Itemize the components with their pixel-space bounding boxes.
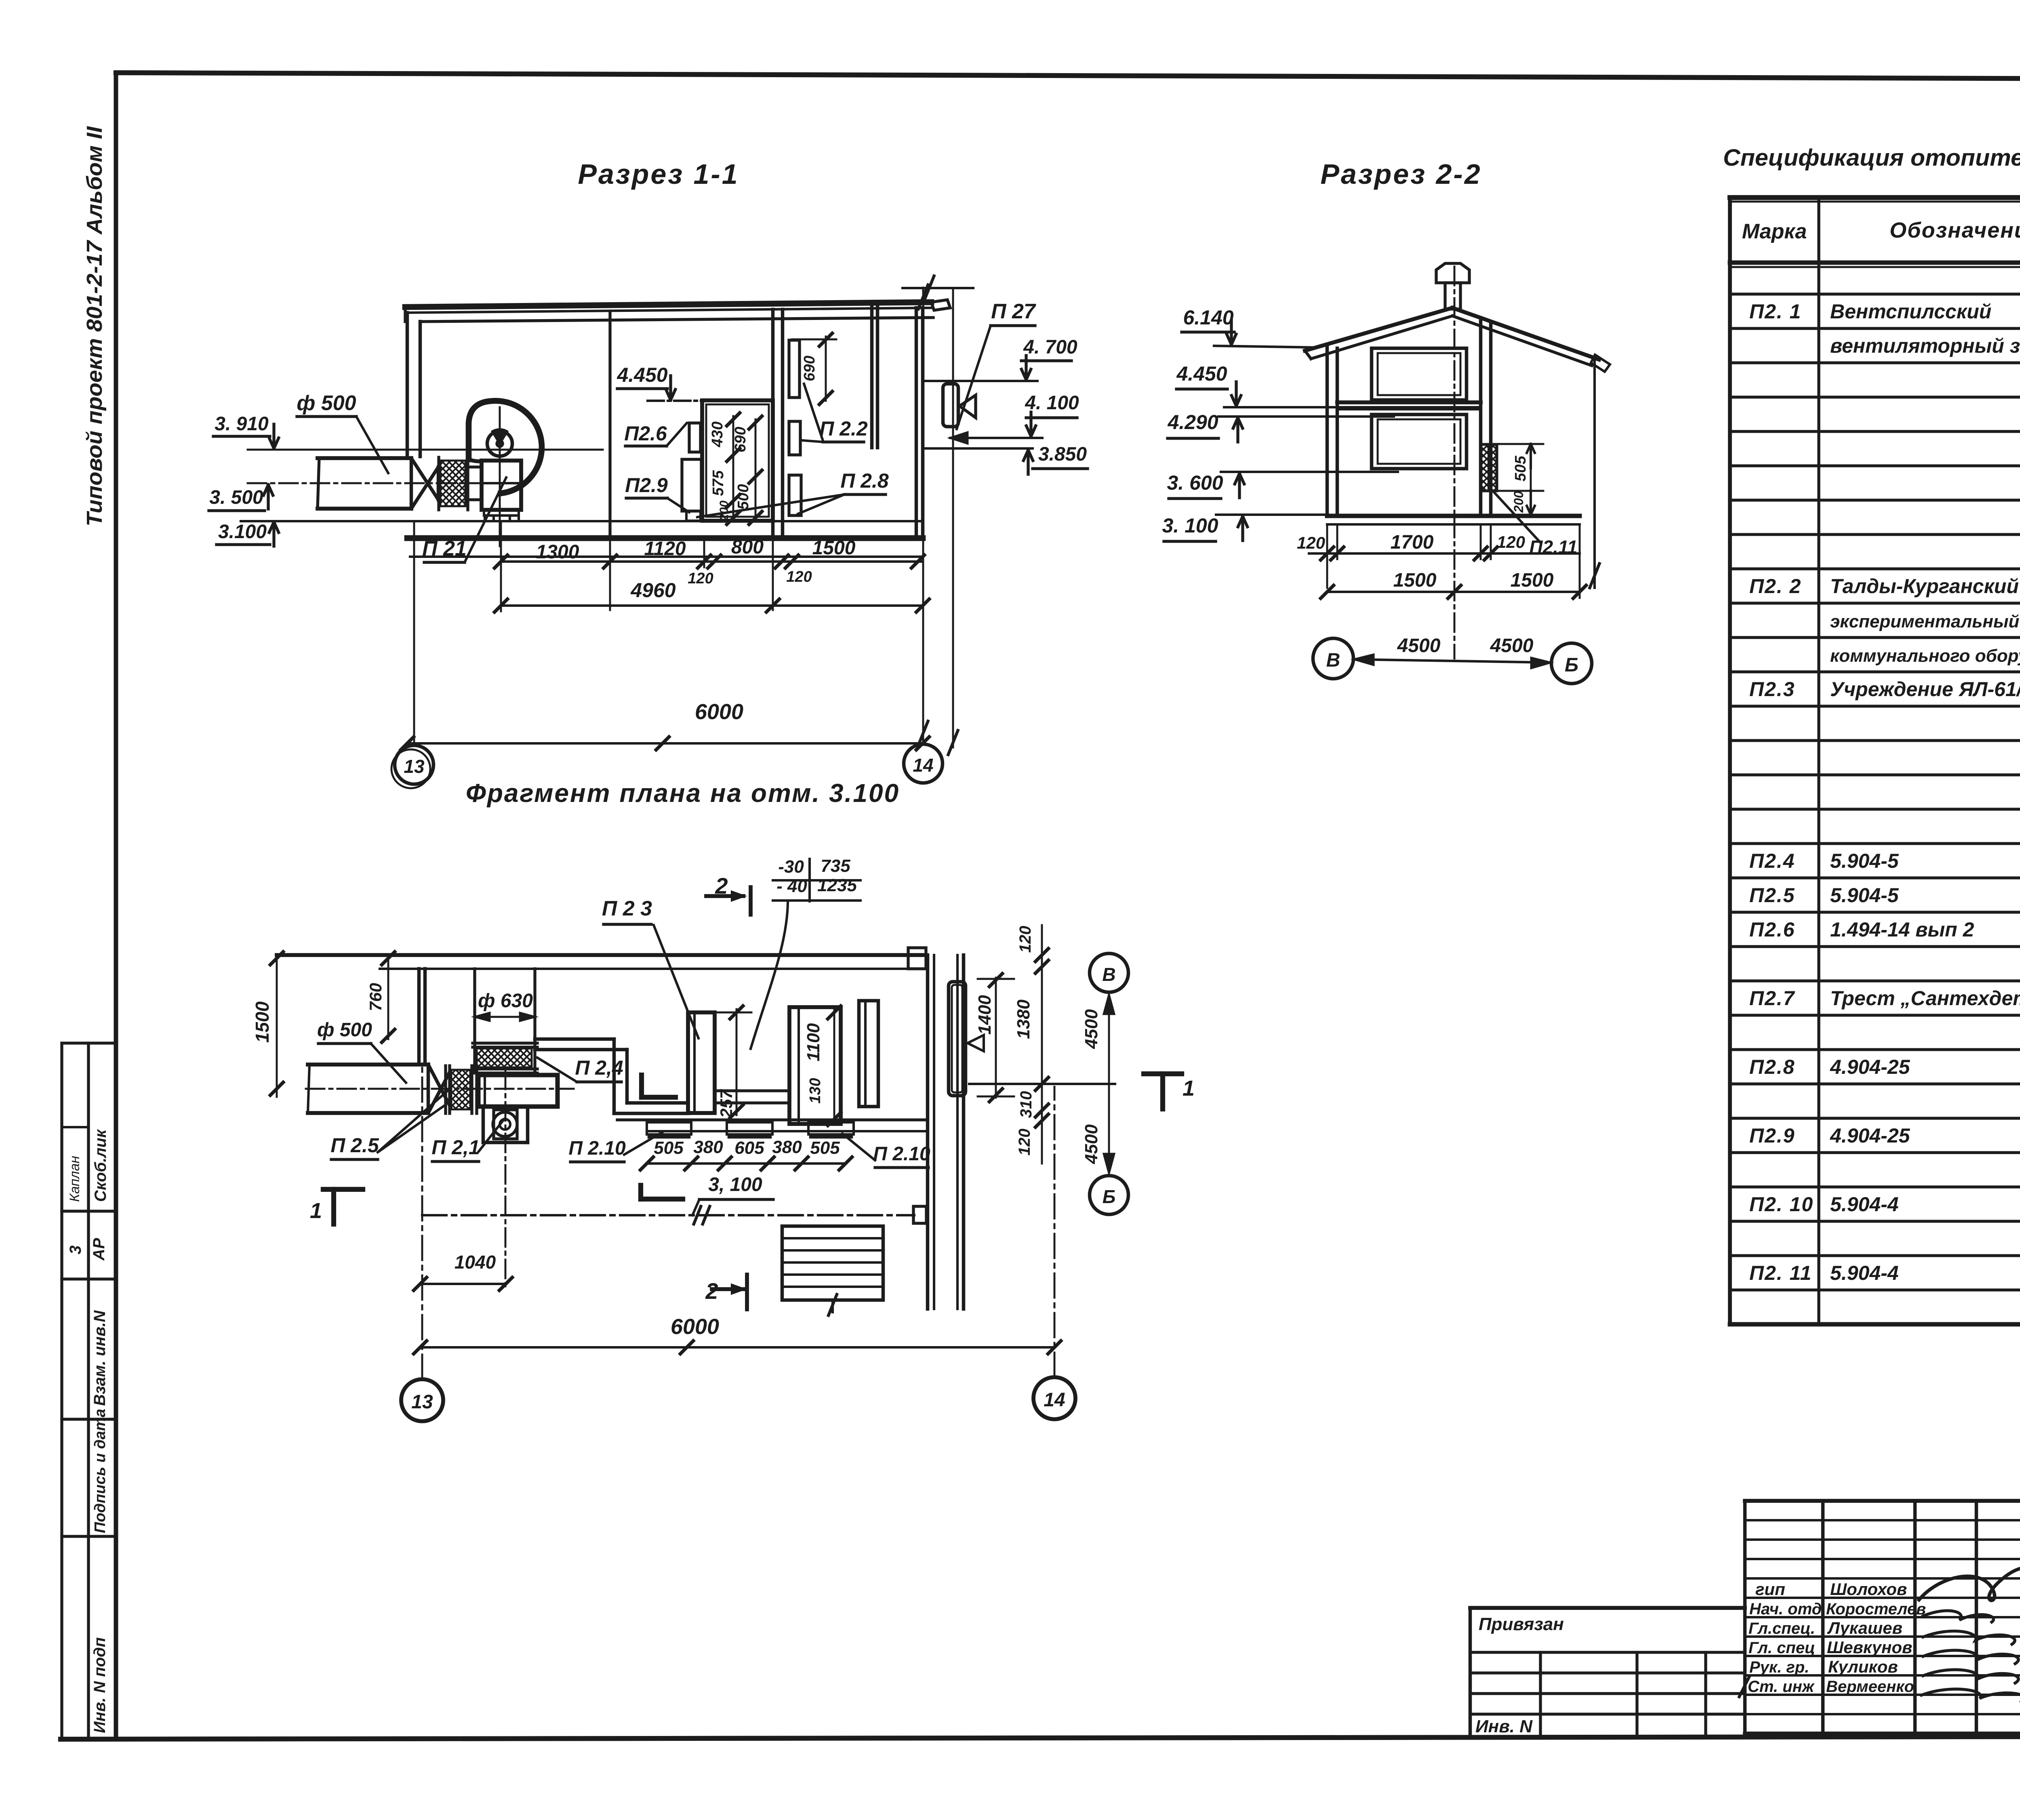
section 1-1 hanging wall stub: [870, 305, 874, 448]
svg-text:ф 500: ф 500: [297, 391, 356, 415]
page border frame: [116, 73, 2020, 80]
svg-text:П2.8: П2.8: [1749, 1056, 1795, 1078]
section 2-2 main floor: [1327, 514, 1580, 518]
svg-text:коммунального оборудования: коммунального оборудования: [1830, 646, 2020, 666]
vertical dim chain 430/575/200: [732, 416, 734, 521]
svg-text:Куликов: Куликов: [1828, 1657, 1898, 1676]
plan axis circle 14: [1033, 1377, 1075, 1419]
svg-text:4. 100: 4. 100: [1025, 392, 1079, 414]
svg-text:Нач. отд: Нач. отд: [1749, 1600, 1822, 1618]
svg-text:760: 760: [366, 983, 385, 1011]
svg-text:3. 500: 3. 500: [209, 487, 263, 508]
svg-text:П 2,4: П 2,4: [575, 1056, 623, 1079]
plan fan П2.1: [478, 1075, 558, 1107]
svg-text:П2.3: П2.3: [1749, 678, 1795, 701]
signature squiggles: [1919, 1568, 2020, 1601]
leader curve from table: [751, 903, 788, 1049]
svg-text:П2.7: П2.7: [1749, 987, 1795, 1010]
svg-text:500: 500: [735, 484, 752, 509]
svg-text:130: 130: [807, 1078, 824, 1103]
svg-text:505: 505: [654, 1138, 684, 1158]
svg-text:П2. 1: П2. 1: [1749, 300, 1801, 323]
svg-text:Скоб.лик: Скоб.лик: [92, 1129, 109, 1202]
svg-text:Трест „Сантехдеталь“: Трест „Сантехдеталь“: [1830, 987, 2020, 1010]
svg-text:П 2 3: П 2 3: [602, 897, 652, 920]
svg-text:П 2,1: П 2,1: [431, 1136, 480, 1159]
svg-text:200: 200: [1511, 491, 1526, 513]
plan vertical duct with П2.4 insert: [473, 969, 476, 1071]
svg-text:800: 800: [731, 537, 764, 558]
dim 1100/130: [833, 1010, 835, 1121]
svg-text:Шевкунов: Шевкунов: [1827, 1638, 1912, 1657]
device П2.7 on right wall: [943, 384, 958, 427]
svg-text:1100: 1100: [804, 1023, 823, 1061]
section 1-1 intake duct: [318, 456, 411, 460]
plan bottom wall of chamber: [617, 1118, 928, 1121]
svg-text:1500: 1500: [1511, 570, 1554, 591]
svg-text:П 21: П 21: [422, 537, 467, 560]
level reference vertical: [952, 288, 954, 747]
section mark 1 left: [323, 1187, 363, 1192]
svg-text:экспериментальный завод: экспериментальный завод: [1830, 612, 2020, 631]
plan dim 6000: [420, 1346, 1054, 1349]
svg-text:вентиляторный завод: вентиляторный завод: [1830, 335, 2020, 357]
dim 257: [736, 1009, 738, 1115]
svg-text:3. 100: 3. 100: [1162, 514, 1218, 537]
svg-text:4.904-25: 4.904-25: [1830, 1056, 1911, 1078]
svg-text:Инв. N подп: Инв. N подп: [91, 1637, 109, 1733]
dim 505/200 vertical: [1530, 444, 1532, 515]
svg-text:П2.9: П2.9: [1749, 1124, 1795, 1147]
air unit frame: [702, 400, 773, 521]
svg-text:5.904-4: 5.904-4: [1830, 1193, 1899, 1216]
svg-text:П2.9: П2.9: [625, 474, 668, 497]
svg-text:Вентспилсский: Вентспилсский: [1830, 300, 1991, 323]
svg-text:4.904-25: 4.904-25: [1830, 1124, 1911, 1147]
svg-text:П 2.5: П 2.5: [330, 1134, 379, 1157]
mid floor: [1337, 400, 1481, 404]
svg-text:1380: 1380: [1014, 999, 1033, 1039]
section 1-1 interior wall: [608, 311, 611, 537]
vertical dim chain 690/500: [755, 419, 757, 521]
svg-text:4.450: 4.450: [617, 364, 667, 386]
svg-text:Вермеенко: Вермеенко: [1826, 1678, 1914, 1696]
svg-text:Разрез 1-1: Разрез 1-1: [578, 158, 739, 190]
svg-text:1700: 1700: [1391, 532, 1434, 553]
svg-text:Б: Б: [1565, 654, 1578, 676]
plan right vertical dim chain 120/1380/310/120: [1041, 925, 1043, 1164]
fan П2.1 hub: [487, 431, 512, 456]
hatch П2.11 on wall: [1481, 444, 1497, 491]
axis circle 13 section: [395, 745, 433, 784]
flexible insert П2.5 hatched: [440, 461, 465, 506]
dim row 1500/1500: [1327, 591, 1580, 593]
svg-text:430: 430: [709, 421, 726, 447]
plan duct from П2.4 to heater: [535, 1037, 614, 1041]
damper П2.2 top section: [789, 340, 800, 398]
svg-text:1120: 1120: [644, 538, 686, 560]
title block signature table: [1743, 1501, 1747, 1737]
svg-text:ф 630: ф 630: [478, 990, 533, 1012]
П2.10 pads: [647, 1122, 691, 1134]
svg-text:5.904-4: 5.904-4: [1830, 1262, 1899, 1284]
grille box 3: [859, 1001, 878, 1107]
svg-text:3, 100: 3, 100: [708, 1174, 762, 1195]
plan room wall bracket lower: [638, 1185, 643, 1199]
svg-text:-30: -30: [778, 857, 804, 877]
svg-text:120: 120: [786, 568, 812, 585]
dim row 4960: [501, 604, 923, 607]
stand П2.9 attachment: [682, 459, 701, 511]
fan П2.1 scroll: [469, 401, 542, 493]
svg-text:3. 910: 3. 910: [215, 413, 269, 435]
svg-text:Разрез 2-2: Разрез 2-2: [1320, 158, 1481, 190]
svg-text:4.290: 4.290: [1167, 411, 1218, 433]
fan axis line: [248, 449, 603, 451]
svg-text:П2. 10: П2. 10: [1749, 1193, 1814, 1216]
plan duct cone: [428, 1065, 450, 1107]
stairs: [782, 1226, 883, 1300]
svg-text:Типовой проект 801-2-17 Ал: Типовой проект 801-2-17 Альбом II: [82, 126, 107, 526]
svg-text:3.850: 3.850: [1038, 444, 1087, 465]
svg-text:575: 575: [710, 470, 727, 496]
spec table grid: [1728, 198, 1732, 1324]
section mark Т1 right: [1144, 1071, 1182, 1076]
damper П2.2 mid section: [789, 421, 800, 455]
svg-text:П2. 2: П2. 2: [1749, 575, 1801, 598]
right eave support line: [1593, 360, 1596, 588]
dim row 120/1700/120: [1309, 552, 1580, 555]
svg-text:1500: 1500: [812, 537, 856, 559]
П2.7 grille in plan: [949, 982, 966, 1096]
section 1-1 middle wall: [771, 309, 775, 538]
svg-text:13: 13: [404, 756, 425, 777]
plan dim 1040: [420, 1283, 506, 1285]
В-Б axis line: [1090, 953, 1128, 992]
plan room wall bracket upper: [639, 1075, 644, 1097]
svg-text:690: 690: [801, 356, 818, 381]
svg-text:605: 605: [734, 1138, 764, 1158]
svg-text:П 2.2: П 2.2: [819, 417, 868, 440]
svg-text:1040: 1040: [455, 1252, 496, 1273]
damper П2.6 attachment: [689, 423, 701, 452]
fan motor box: [482, 461, 521, 510]
svg-text:ф 500: ф 500: [317, 1019, 372, 1041]
section 1-1 right wall: [915, 308, 918, 538]
plan intake duct: [306, 1088, 574, 1090]
section 1-1 duct transition cone: [411, 458, 438, 500]
section 1-1 left wall: [406, 313, 409, 457]
section 1-1 roof slab: [405, 302, 931, 307]
svg-text:120: 120: [1497, 532, 1525, 551]
plan wall pillar top right: [908, 948, 926, 969]
fan inlet stub: [468, 465, 482, 468]
unit box 2: [789, 1007, 841, 1124]
plan right wall: [926, 955, 930, 1309]
svg-text:735: 735: [821, 856, 850, 876]
svg-text:АР: АР: [90, 1238, 108, 1261]
svg-text:200: 200: [718, 501, 731, 521]
slash before Ст.инж: [1739, 1677, 1749, 1697]
plan vertical dim 760: [387, 955, 389, 1039]
svg-text:гип: гип: [1755, 1580, 1785, 1599]
svg-text:Учреждение ЯЛ-61/4: Учреждение ЯЛ-61/4: [1830, 678, 2020, 701]
lower window panel: [1372, 414, 1467, 469]
svg-text:380: 380: [693, 1137, 723, 1157]
svg-text:Рук. гр.: Рук. гр.: [1749, 1658, 1809, 1676]
section 2-2 middle wall: [1479, 321, 1483, 516]
plan left vertical dim 1500: [276, 955, 278, 1097]
svg-text:Б: Б: [1103, 1186, 1116, 1207]
svg-text:14: 14: [913, 755, 933, 776]
svg-text:Шолохов: Шолохов: [1830, 1580, 1907, 1599]
svg-text:1500: 1500: [252, 1001, 273, 1043]
svg-text:310: 310: [1017, 1091, 1035, 1118]
svg-text:П 27: П 27: [991, 300, 1036, 323]
svg-text:4500: 4500: [1082, 1009, 1101, 1049]
svg-text:Фрагмент плана на отм. 3.10: Фрагмент плана на отм. 3.100: [466, 778, 900, 808]
svg-text:Подпись и дата: Подпись и дата: [92, 1409, 109, 1533]
plan top wall: [277, 953, 925, 957]
section trace line right: [969, 1083, 1115, 1085]
svg-text:6000: 6000: [671, 1315, 719, 1339]
dim row 1300/1120/800/1500: [501, 560, 923, 563]
svg-text:5.904-5: 5.904-5: [1830, 850, 1899, 872]
svg-text:4500: 4500: [1397, 635, 1441, 656]
axis circle 14 section: [904, 744, 943, 783]
svg-text:Марка: Марка: [1742, 220, 1807, 243]
svg-text:Гл.спец.: Гл.спец.: [1749, 1620, 1815, 1637]
svg-text:6.140: 6.140: [1183, 306, 1233, 329]
dim row 6000 section: [407, 742, 923, 745]
svg-text:6000: 6000: [695, 700, 743, 724]
svg-text:3.100: 3.100: [218, 521, 267, 543]
svg-text:120: 120: [1297, 533, 1325, 552]
left attachment box Привязан: [1470, 1606, 1745, 1610]
svg-text:4500: 4500: [1082, 1124, 1101, 1164]
svg-text:П2.6: П2.6: [624, 422, 667, 445]
svg-text:4. 700: 4. 700: [1023, 337, 1077, 358]
svg-text:380: 380: [772, 1137, 802, 1157]
axis circle В: [1313, 638, 1353, 679]
section 1-1 floor lines: [241, 520, 923, 522]
svg-text:1: 1: [1183, 1076, 1195, 1100]
vertical dim 690 upper: [825, 337, 827, 401]
svg-text:Каплан: Каплан: [67, 1156, 82, 1202]
svg-text:Лукашев: Лукашев: [1827, 1618, 1902, 1637]
svg-text:Ст. инж: Ст. инж: [1748, 1678, 1815, 1696]
svg-text:Гл. спец: Гл. спец: [1749, 1639, 1815, 1657]
svg-text:1400: 1400: [975, 995, 995, 1035]
svg-text:4.450: 4.450: [1176, 362, 1227, 385]
left stamp column boxes: [60, 1043, 63, 1738]
section 2-2 left wall: [1326, 345, 1329, 516]
svg-text:П2.5: П2.5: [1749, 884, 1795, 907]
svg-text:690: 690: [732, 427, 749, 452]
dim 1400: [995, 978, 997, 1098]
plan flexible insert П2.5: [451, 1070, 470, 1109]
svg-text:120: 120: [688, 570, 713, 587]
svg-text:120: 120: [1016, 1129, 1033, 1156]
damper П2.2 lower section: [789, 475, 801, 515]
svg-text:Обозначение: Обозначение: [1890, 218, 2020, 242]
svg-text:5.904-5: 5.904-5: [1830, 884, 1899, 907]
dim row 505/380/605/380/505: [647, 1162, 846, 1165]
svg-text:Привязан: Привязан: [1479, 1614, 1564, 1634]
svg-text:4960: 4960: [630, 579, 675, 602]
plan dash line: [422, 1214, 914, 1216]
svg-text:П2.6: П2.6: [1749, 918, 1795, 941]
svg-text:Инв. N: Инв. N: [1475, 1717, 1533, 1736]
svg-text:3: 3: [67, 1246, 84, 1254]
svg-text:П 2.10: П 2.10: [568, 1138, 626, 1159]
section 2-2 roof: [1305, 308, 1452, 351]
svg-text:3. 600: 3. 600: [1167, 471, 1223, 494]
plan wall corner near fan: [417, 969, 421, 1065]
svg-text:П2. 11: П2. 11: [1749, 1262, 1812, 1284]
svg-text:1235: 1235: [817, 875, 857, 895]
axis circle Б: [1551, 643, 1592, 684]
svg-text:П 2.10: П 2.10: [873, 1143, 930, 1165]
svg-text:4500: 4500: [1490, 635, 1534, 656]
svg-text:505: 505: [1512, 455, 1529, 481]
svg-text:Талды-Курганский: Талды-Курганский: [1830, 575, 2019, 598]
svg-text:Коростелев: Коростелев: [1826, 1600, 1926, 1618]
svg-text:В: В: [1326, 650, 1340, 671]
heater П2.3 box: [688, 1012, 715, 1113]
upper window panel: [1372, 348, 1467, 400]
svg-text:П 2.8: П 2.8: [840, 469, 889, 492]
svg-text:1.494-14 вып 2: 1.494-14 вып 2: [1830, 918, 1974, 941]
chimney: [1445, 283, 1460, 309]
fan base and feet: [484, 510, 519, 515]
svg-text:1300: 1300: [536, 541, 579, 563]
svg-text:1500: 1500: [1393, 570, 1437, 591]
svg-text:Взам. инв.N: Взам. инв.N: [91, 1310, 109, 1406]
svg-text:505: 505: [810, 1138, 840, 1158]
svg-text:13: 13: [411, 1391, 433, 1413]
svg-text:1: 1: [310, 1199, 322, 1223]
plan fan motor: [482, 1107, 485, 1142]
plan axis circle 13: [401, 1379, 443, 1421]
center axis dash line: [1454, 267, 1456, 659]
svg-text:120: 120: [1016, 926, 1034, 953]
duct between boxes: [715, 1089, 789, 1092]
axis dim 4500/4500: [1354, 659, 1551, 663]
svg-text:Спецификация отопительно-вент: Спецификация отопительно-вентиляционной …: [1723, 145, 2020, 171]
svg-text:14: 14: [1044, 1389, 1065, 1411]
svg-text:В: В: [1102, 964, 1115, 985]
svg-text:П2.4: П2.4: [1749, 850, 1795, 872]
